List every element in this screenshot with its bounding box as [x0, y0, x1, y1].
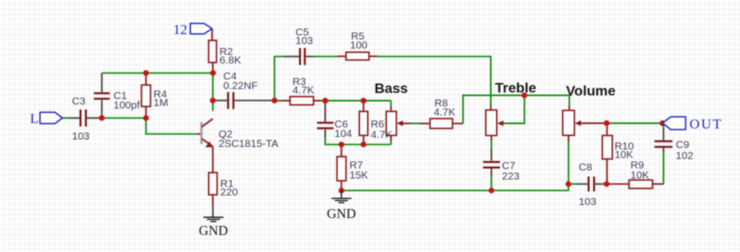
svg-text:15K: 15K	[350, 169, 369, 181]
svg-text:6.8K: 6.8K	[220, 55, 242, 67]
svg-text:10K: 10K	[631, 170, 650, 182]
svg-text:Bass: Bass	[375, 80, 409, 96]
svg-text:C3: C3	[72, 96, 86, 108]
svg-text:102: 102	[676, 150, 694, 162]
svg-text:4.7K: 4.7K	[371, 129, 393, 141]
svg-text:OUT: OUT	[690, 118, 723, 133]
svg-text:104: 104	[335, 128, 353, 140]
svg-text:223: 223	[502, 171, 520, 183]
svg-text:GND: GND	[327, 206, 356, 221]
svg-text:GND: GND	[199, 223, 228, 238]
svg-text:4.7K: 4.7K	[434, 107, 456, 119]
svg-text:100: 100	[350, 40, 368, 52]
svg-text:0.22NF: 0.22NF	[223, 80, 257, 92]
svg-text:C8: C8	[579, 162, 593, 174]
svg-text:103: 103	[579, 196, 597, 208]
svg-text:12: 12	[173, 23, 187, 38]
svg-text:Treble: Treble	[495, 80, 536, 96]
svg-text:Volume: Volume	[566, 83, 616, 99]
svg-text:4.7K: 4.7K	[293, 85, 315, 97]
svg-text:L: L	[30, 112, 39, 127]
svg-text:220: 220	[220, 186, 238, 198]
svg-text:2SC1815-TA: 2SC1815-TA	[219, 138, 279, 150]
svg-text:103: 103	[72, 131, 90, 143]
svg-text:103: 103	[296, 35, 314, 47]
svg-text:1M: 1M	[154, 97, 169, 109]
svg-text:100pf: 100pf	[114, 100, 140, 112]
